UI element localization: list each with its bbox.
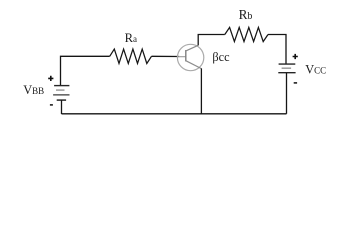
wire: resistor Rb right and down to battery VCC bbox=[268, 35, 286, 64]
svg-text:VCC: VCC bbox=[305, 63, 326, 77]
battery VCC : bottom long plate bbox=[278, 72, 295, 74]
resistor Ra bbox=[110, 49, 152, 63]
wire: bottom rail bbox=[62, 113, 287, 115]
transistor Q1 : emitter stroke bbox=[186, 61, 202, 69]
battery VCC : minus mark bbox=[294, 82, 297, 84]
wire: battery VCC bottom lead down to bottom rail bbox=[286, 73, 288, 114]
wire: VBB top lead up and right to resistor Ra bbox=[61, 56, 110, 85]
battery VBB : minus mark bbox=[50, 104, 53, 106]
battery VBB : plus mark bbox=[48, 76, 53, 81]
svg-text:βcc: βcc bbox=[212, 50, 230, 64]
svg-text:Rb: Rb bbox=[239, 7, 253, 22]
svg-text:VBB: VBB bbox=[23, 83, 44, 97]
transistor Q1 : base bar bbox=[185, 50, 187, 61]
wire: battery VBB bottom lead down to bottom rail bbox=[61, 100, 63, 114]
transistor Q1 : base lead inside circle bbox=[178, 56, 186, 58]
svg-text:Ra: Ra bbox=[125, 31, 137, 45]
wire: emitter down to bottom rail bbox=[200, 68, 202, 113]
wire: collector up to top rail and right to resistor Rb bbox=[198, 35, 225, 46]
resistor Rb bbox=[225, 27, 268, 41]
battery VCC : top long plate bbox=[279, 63, 296, 65]
battery VBB : bottom short plate bbox=[57, 99, 66, 101]
battery VBB : top long plate bbox=[54, 85, 69, 87]
transistor Q1 (βcc) : circle bbox=[177, 44, 203, 70]
transistor Q1 : collector stroke bbox=[186, 45, 198, 51]
battery VCC : middle short plate bbox=[282, 67, 292, 69]
wire: resistor Ra to transistor base bbox=[152, 55, 180, 57]
battery VBB : second short plate bbox=[56, 89, 65, 91]
battery VCC : plus mark bbox=[293, 54, 298, 59]
battery VBB : third long plate bbox=[53, 94, 69, 96]
